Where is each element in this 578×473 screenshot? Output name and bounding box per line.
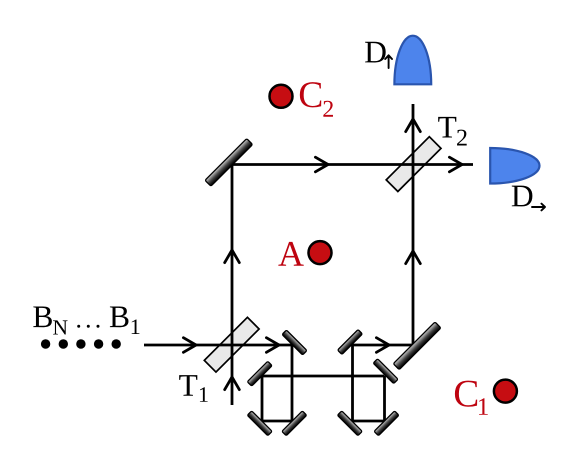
beam splitter T2 <box>386 137 441 192</box>
wire loop1 bottom <box>262 420 292 423</box>
wire middle connector <box>262 375 385 378</box>
detector D up dome <box>394 36 431 85</box>
wire loop1 up leg <box>261 376 264 421</box>
label B_N...B_1: subscript 1 <box>132 319 140 334</box>
label B_N...B_1: ellipsis dots <box>77 325 99 328</box>
wire T2 right output <box>414 163 474 166</box>
mirror loop1 bottom-right <box>282 411 307 436</box>
label B_N...B_1: subscript N <box>53 320 67 334</box>
mirror loop2 right <box>373 359 398 384</box>
mirror top-left <box>205 139 253 187</box>
label T2: T <box>438 117 456 138</box>
label D-up: D <box>365 42 386 63</box>
label B_N...B_1: B <box>33 306 52 327</box>
label A: A <box>278 242 303 266</box>
arrow input right <box>183 338 196 353</box>
label C2: C <box>300 82 321 107</box>
mirror loop1 bottom-left <box>247 411 272 436</box>
arrow left arm up <box>225 250 240 263</box>
wire top arm <box>232 163 414 166</box>
label C1: C <box>455 381 477 407</box>
label B_N...B_1: B <box>110 306 129 327</box>
atom A circle <box>309 241 332 264</box>
arrow top arm right <box>315 157 328 172</box>
wire below T1 stub <box>231 345 234 405</box>
arrow loop2 output right <box>376 338 389 353</box>
wire loop1 down leg <box>291 345 294 421</box>
arrow T2 output right <box>449 157 462 172</box>
arrow right arm up <box>406 251 421 264</box>
wire right arm <box>412 104 415 345</box>
mirror loop2 bottom-right <box>374 411 399 436</box>
mirror loop1 top <box>282 330 307 355</box>
mirror loop2 bottom-left <box>337 411 362 436</box>
wire left arm <box>231 165 234 346</box>
label D-right: D <box>512 186 533 207</box>
wire loop2 output <box>353 344 414 347</box>
mirror loop2 top <box>338 330 363 355</box>
beam splitter T1 <box>204 317 259 372</box>
detector D right dome <box>490 148 539 184</box>
arrow above T2 up <box>406 119 421 132</box>
label C1: subscript 1 <box>479 398 488 415</box>
label C2: subscript 2 <box>323 101 333 117</box>
wire loop2 bottom <box>353 420 385 423</box>
arrow after T1 right <box>266 338 279 353</box>
wire loop2 down leg <box>383 376 386 421</box>
input photon dots B <box>41 339 121 348</box>
label T1: subscript 1 <box>200 387 208 402</box>
label D-right: subscript right arrow <box>532 204 545 211</box>
wire input beam <box>144 344 292 347</box>
atom C2 circle <box>270 85 293 108</box>
mirror loop1 left <box>247 361 272 386</box>
arrow below T1 up <box>225 377 240 390</box>
label T1: T <box>179 375 197 396</box>
label T2: subscript 2 <box>457 130 467 146</box>
wire loop2 up leg <box>351 345 354 421</box>
atom C1 circle <box>494 380 517 403</box>
mirror bottom-right <box>393 322 441 370</box>
label D-up: subscript up arrow <box>385 55 392 68</box>
